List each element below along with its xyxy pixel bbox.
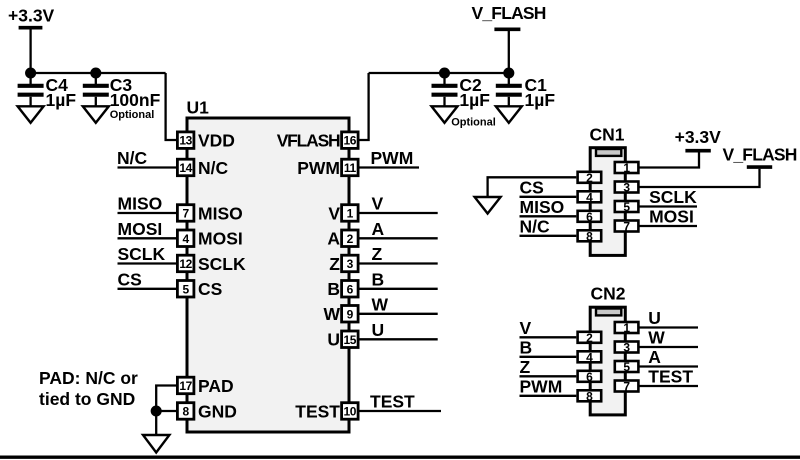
pin 10 square <box>342 403 359 420</box>
wire PWM into CN2 pin8 <box>520 395 577 397</box>
svg-text:MOSI: MOSI <box>198 229 243 249</box>
svg-text:2: 2 <box>347 232 354 246</box>
svg-text:PAD: PAD <box>198 376 234 396</box>
connector CN2 key notch <box>596 309 621 316</box>
pin 12 square <box>177 255 194 272</box>
svg-text:B: B <box>327 279 340 299</box>
svg-text:U1: U1 <box>187 97 210 117</box>
svg-text:14: 14 <box>179 161 192 175</box>
power symbol V_FLASH bar (CN1) <box>747 165 772 169</box>
svg-text:3: 3 <box>623 341 630 355</box>
svg-text:12: 12 <box>179 257 192 271</box>
svg-text:B: B <box>520 337 533 357</box>
svg-text:V_FLASH: V_FLASH <box>472 3 546 23</box>
svg-text:N/C: N/C <box>520 216 551 236</box>
svg-text:13: 13 <box>179 134 192 148</box>
svg-text:3: 3 <box>347 257 354 271</box>
svg-text:+3.3V: +3.3V <box>8 5 55 25</box>
svg-text:CN1: CN1 <box>590 125 625 145</box>
pin 5 square <box>177 281 194 298</box>
capacitor C2 <box>432 73 458 106</box>
svg-text:SCLK: SCLK <box>649 187 697 207</box>
wire +3.3V rail horizontal <box>31 72 166 74</box>
svg-text:W: W <box>323 304 340 324</box>
pin 14 square <box>177 159 194 176</box>
pin 2 square <box>342 230 359 247</box>
junction dot at C2 <box>440 69 449 78</box>
svg-text:6: 6 <box>586 370 593 384</box>
svg-text:U: U <box>327 330 340 350</box>
svg-text:V: V <box>328 203 340 223</box>
svg-text:1µF: 1µF <box>46 90 77 110</box>
svg-text:VFLASH: VFLASH <box>277 130 340 150</box>
svg-text:8: 8 <box>586 389 593 403</box>
pin 6 square <box>342 281 359 298</box>
svg-text:9: 9 <box>347 307 354 321</box>
wire SCLK from CN1 pin5 <box>640 205 698 207</box>
wire Z into CN2 pin6 <box>520 375 577 377</box>
wire GND pin 8 <box>156 410 176 412</box>
wire V_FLASH stem down <box>508 31 510 73</box>
CN1 pin 5 <box>615 200 639 214</box>
wire V_FLASH rail horizontal <box>369 72 509 74</box>
svg-text:+3.3V: +3.3V <box>675 127 722 147</box>
pin 17 square <box>177 377 194 394</box>
svg-text:4: 4 <box>182 232 189 246</box>
svg-text:CN2: CN2 <box>591 284 626 304</box>
svg-text:W: W <box>648 328 665 348</box>
svg-text:Optional: Optional <box>451 116 496 128</box>
wire MISO into CN1 pin6 <box>520 215 577 217</box>
svg-text:11: 11 <box>344 161 357 175</box>
pin 4 square <box>177 230 194 247</box>
pin 13 square <box>177 132 194 149</box>
wire W from pin 9 <box>359 313 438 315</box>
svg-text:4: 4 <box>586 350 593 364</box>
wire CS into pin 5 <box>118 288 177 290</box>
svg-text:MISO: MISO <box>520 197 565 217</box>
wire N/C into pin 14 <box>118 166 177 168</box>
wire CS into CN1 pin4 <box>520 196 577 198</box>
svg-text:V: V <box>372 194 384 214</box>
svg-text:W: W <box>372 294 389 314</box>
svg-text:2: 2 <box>586 171 593 185</box>
svg-text:MOSI: MOSI <box>118 219 163 239</box>
wire MISO into pin 7 <box>118 212 177 214</box>
svg-text:Optional: Optional <box>110 109 155 121</box>
wire U from pin 15 <box>359 338 438 340</box>
ground under C4 <box>18 106 44 123</box>
svg-text:PWM: PWM <box>297 158 340 178</box>
svg-text:8: 8 <box>586 229 593 243</box>
connector CN2 body <box>590 307 625 415</box>
note PAD: N/C or tied to GND <box>39 368 138 409</box>
svg-text:U: U <box>372 320 385 340</box>
wire +3.3V stem down <box>29 30 31 74</box>
svg-text:B: B <box>372 269 385 289</box>
svg-text:10: 10 <box>344 405 357 419</box>
pin 15 square <box>342 331 359 348</box>
wire down to ground <box>155 411 157 435</box>
CN2 pin 1 <box>615 321 639 335</box>
wire PWM from pin 11 <box>359 166 419 168</box>
wire N/C into CN1 pin8 <box>520 235 577 237</box>
svg-text:1µF: 1µF <box>459 90 490 110</box>
ground at CN1 pin2 <box>475 197 501 214</box>
ground under C1 <box>496 106 522 123</box>
wire U from CN2 pin1 <box>640 326 699 328</box>
CN2 pin 5 <box>615 360 639 374</box>
wire MOSI from CN1 pin7 <box>640 225 698 227</box>
CN1 pin 1 <box>615 161 639 175</box>
pin 9 square <box>342 306 359 323</box>
svg-text:PWM: PWM <box>520 376 563 396</box>
svg-text:7: 7 <box>623 380 630 394</box>
svg-text:8: 8 <box>182 405 189 419</box>
junction dot at C1 <box>504 69 513 78</box>
power symbol +3.3V bar <box>19 26 43 30</box>
svg-text:TEST: TEST <box>648 367 693 387</box>
power symbol +3.3V bar (CN1) <box>685 149 710 153</box>
svg-text:A: A <box>372 219 385 239</box>
svg-text:1: 1 <box>623 161 630 175</box>
svg-text:Z: Z <box>520 357 531 377</box>
pin 3 square <box>342 255 359 272</box>
svg-text:1µF: 1µF <box>525 90 556 110</box>
svg-text:1: 1 <box>347 207 354 221</box>
svg-text:A: A <box>327 229 340 249</box>
svg-text:MISO: MISO <box>198 203 243 223</box>
connector CN1 key notch <box>596 149 621 156</box>
svg-text:16: 16 <box>344 134 357 148</box>
CN1 pin 2 <box>578 171 602 185</box>
connector CN1 body <box>590 148 625 256</box>
svg-text:VDD: VDD <box>198 130 235 150</box>
svg-text:N/C: N/C <box>117 148 148 168</box>
wire V into CN2 pin2 <box>520 336 577 338</box>
svg-text:6: 6 <box>586 210 593 224</box>
junction dot at C3 <box>91 69 100 78</box>
wire TEST from CN2 pin7 <box>640 385 699 387</box>
pin 11 square <box>342 159 359 176</box>
svg-text:1: 1 <box>623 321 630 335</box>
svg-text:GND: GND <box>198 401 237 421</box>
svg-text:V_FLASH: V_FLASH <box>723 144 797 164</box>
svg-text:PWM: PWM <box>371 148 414 168</box>
svg-text:Z: Z <box>329 254 340 274</box>
svg-text:tied to GND: tied to GND <box>39 389 135 409</box>
svg-text:CS: CS <box>520 177 544 197</box>
svg-text:U: U <box>648 308 661 328</box>
CN1 pin 3 <box>615 181 639 195</box>
pin 16 square <box>342 132 359 149</box>
svg-text:6: 6 <box>347 282 354 296</box>
wire Z from pin 3 <box>359 262 438 264</box>
wire CN1 pin1 to +3.3V <box>640 152 700 168</box>
wire MOSI into pin 4 <box>118 237 177 239</box>
pin 8 square <box>177 403 194 420</box>
CN1 pin 8 <box>578 229 602 243</box>
svg-text:N/C: N/C <box>198 158 229 178</box>
pin 7 square <box>177 205 194 222</box>
capacitor C1 <box>496 73 522 106</box>
svg-text:CS: CS <box>198 279 222 299</box>
wire B from pin 6 <box>359 288 438 290</box>
svg-text:PAD: N/C or: PAD: N/C or <box>39 368 138 388</box>
wire V from pin 1 <box>359 212 438 214</box>
capacitor C4 <box>18 73 44 106</box>
CN2 pin 3 <box>615 341 639 355</box>
svg-text:SCLK: SCLK <box>198 254 246 274</box>
wire W from CN2 pin3 <box>640 346 699 348</box>
capacitor C3 <box>83 73 109 106</box>
svg-text:2: 2 <box>586 331 593 345</box>
wire CN1 pin3 to V_FLASH <box>640 169 760 187</box>
power symbol V_FLASH bar <box>494 27 520 31</box>
CN2 pin 8 <box>578 389 602 403</box>
bottom border rule <box>0 456 800 459</box>
svg-text:MISO: MISO <box>118 194 163 214</box>
svg-text:CS: CS <box>118 269 142 289</box>
svg-text:5: 5 <box>182 282 189 296</box>
wire SCLK into pin 12 <box>118 262 177 264</box>
ground under U1 <box>143 435 169 453</box>
ground under C3 <box>83 106 109 123</box>
svg-text:TEST: TEST <box>295 401 340 421</box>
CN2 pin 7 <box>615 380 639 394</box>
junction dot GND <box>152 407 161 416</box>
svg-text:3: 3 <box>623 181 630 195</box>
wire A from pin 2 <box>359 237 438 239</box>
CN1 pin 7 <box>615 220 639 234</box>
svg-text:SCLK: SCLK <box>118 244 166 264</box>
wire corner down to pin 16 <box>359 73 369 140</box>
CN2 pin 6 <box>578 370 602 384</box>
wire A from CN2 pin5 <box>640 365 699 367</box>
CN1 pin 4 <box>578 190 602 204</box>
svg-text:A: A <box>648 347 661 367</box>
CN2 pin 4 <box>578 350 602 364</box>
CN1 pin 6 <box>578 210 602 224</box>
svg-text:Z: Z <box>372 244 383 264</box>
svg-text:V: V <box>520 318 532 338</box>
wire PAD pin 17 elbow <box>156 386 176 412</box>
ground under C2 <box>432 106 458 123</box>
svg-text:5: 5 <box>623 200 630 214</box>
IC U1 body <box>187 118 349 432</box>
wire CN1 pin2 to ground <box>488 177 577 197</box>
svg-text:15: 15 <box>344 333 357 347</box>
svg-text:4: 4 <box>586 190 593 204</box>
wire corner down to pin 13 <box>166 73 177 140</box>
svg-text:5: 5 <box>623 360 630 374</box>
wire TEST from pin 10 <box>359 410 441 412</box>
svg-text:7: 7 <box>623 220 630 234</box>
junction dot at C4 <box>26 69 35 78</box>
svg-text:MOSI: MOSI <box>649 207 694 227</box>
wire B into CN2 pin4 <box>520 356 577 358</box>
pin 1 square <box>342 205 359 222</box>
svg-text:100nF: 100nF <box>110 90 161 110</box>
svg-text:17: 17 <box>179 379 192 393</box>
svg-text:7: 7 <box>182 207 189 221</box>
svg-text:TEST: TEST <box>370 392 415 412</box>
CN2 pin 2 <box>578 331 602 345</box>
